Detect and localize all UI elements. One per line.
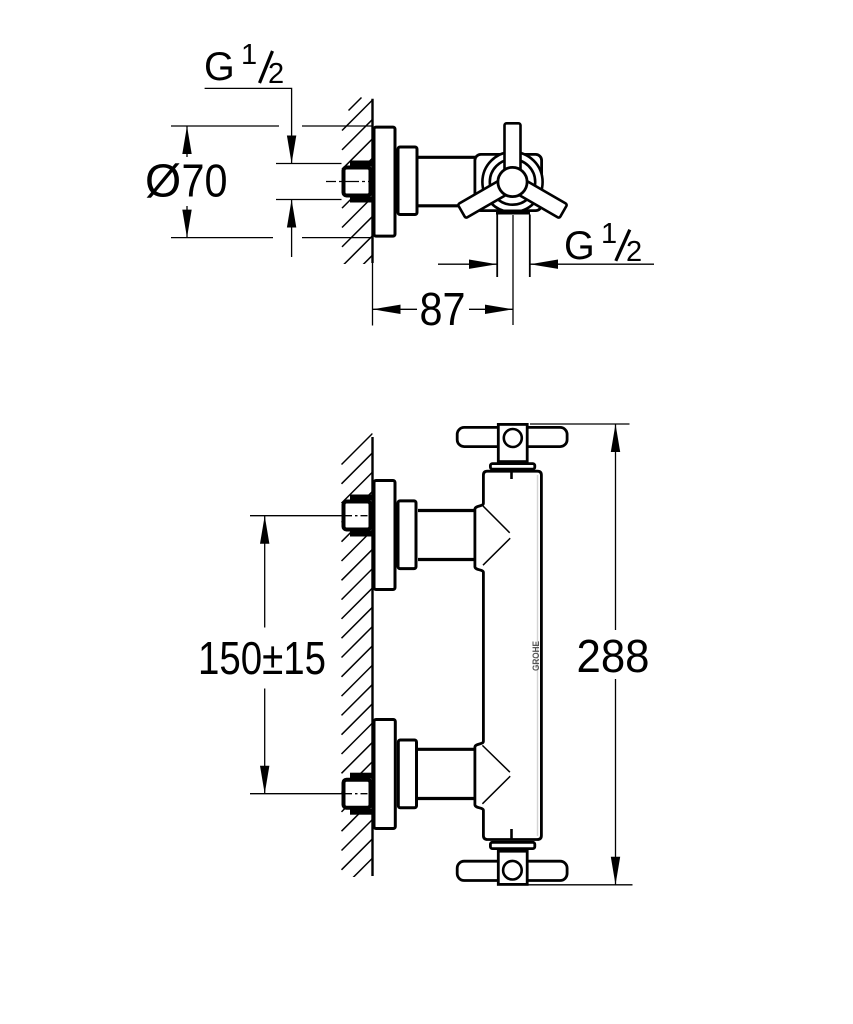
centerline (front top nipple): [250, 515, 345, 517]
handle spoke up (top view): [505, 123, 521, 182]
dimension 87 line and arrows: [373, 308, 418, 310]
pipe (top view): [419, 156, 476, 159]
wall line (top view): [371, 99, 373, 263]
wall line (front view): [371, 437, 373, 876]
svg-text:87: 87: [420, 283, 466, 335]
svg-text:G: G: [564, 224, 595, 268]
svg-text:1: 1: [601, 218, 617, 250]
valve block (top view): [475, 154, 542, 210]
thread bands (front top nipple): [350, 495, 373, 501]
svg-text:G: G: [204, 45, 235, 89]
chevron (front bottom inlet): [482, 745, 510, 803]
chevron (front top inlet): [483, 506, 510, 565]
handle skirt inner circle (top view): [490, 159, 535, 204]
index tick (front body top): [510, 472, 513, 480]
step ring (front bottom): [398, 740, 416, 808]
wall hatching (top view): [342, 100, 373, 305]
step ring (top view): [398, 147, 417, 215]
svg-text:GROHE: GROHE: [531, 641, 542, 671]
hub circle (front top): [504, 429, 522, 447]
bonnet collar (front bottom): [490, 842, 534, 848]
nipple extension lines (top view): [276, 163, 342, 165]
svg-text:150±15: 150±15: [198, 632, 326, 684]
opposing arrow up: [287, 200, 296, 228]
body (front view): [475, 471, 542, 839]
hub block (front top): [498, 424, 527, 461]
index tick (front body bottom): [510, 829, 513, 839]
svg-text:Ø: Ø: [145, 155, 181, 207]
centerline (front bottom nipple): [250, 793, 345, 795]
outlet stem lines (top view): [496, 215, 498, 278]
handle bar (front top): [457, 427, 567, 446]
svg-text:1: 1: [241, 39, 257, 71]
partial hatch above wall (top view): [349, 98, 362, 111]
svg-text:2: 2: [268, 58, 284, 90]
bonnet collar (front top): [490, 464, 534, 470]
leader arrow down: [287, 136, 296, 164]
fraction slash (upper G 1/2): [260, 51, 273, 83]
dimension Ø70 line and arrows: [186, 126, 188, 157]
label G 1/2 (right): [564, 218, 642, 268]
label G 1/2 (upper): [204, 39, 284, 90]
G 1/2 thread bands (top view nipple): [350, 161, 373, 167]
handle skirt outer circle (top view): [482, 152, 542, 212]
dimension G1/2 stem lines and arrows: [438, 263, 497, 265]
dimension Ø70 extension lines: [171, 125, 279, 127]
centerline through nipple (top view): [326, 181, 372, 183]
dimension 288 extension lines: [530, 423, 630, 425]
handle spoke lower-right (top view): [508, 175, 567, 218]
leader line (upper G 1/2): [205, 88, 292, 163]
pipe (front top): [418, 509, 475, 512]
union nut (front top nipple): [344, 502, 371, 530]
outlet centerline (top view): [512, 215, 514, 325]
svg-text:70: 70: [182, 155, 228, 207]
step ring (front top): [398, 501, 416, 569]
pipe (front bottom): [418, 748, 475, 751]
handle hub circle (top view): [498, 167, 527, 196]
cylinder highlight line (front body): [537, 475, 539, 836]
wall hatching (front view): [342, 434, 373, 909]
fraction slash (right G 1/2): [616, 230, 630, 261]
union nut (front bottom nipple): [344, 780, 371, 808]
flange (front top): [374, 481, 395, 590]
union nut (top view nipple): [344, 168, 371, 196]
handle bar (front bottom): [457, 861, 567, 880]
svg-text:2: 2: [626, 236, 642, 268]
dimension 288 line and arrows: [615, 424, 617, 630]
handle spoke lower-left (top view): [458, 175, 517, 218]
bonnet band (top view): [496, 210, 530, 215]
hub circle (front bottom): [503, 861, 522, 880]
dimension 150±15 line and arrows: [264, 516, 266, 628]
svg-text:288: 288: [577, 630, 650, 682]
flange / escutcheon (top view): [374, 127, 395, 236]
thread bands (front bottom nipple): [350, 773, 373, 779]
flange (front bottom): [374, 720, 395, 829]
hub block (front bottom): [498, 851, 527, 884]
